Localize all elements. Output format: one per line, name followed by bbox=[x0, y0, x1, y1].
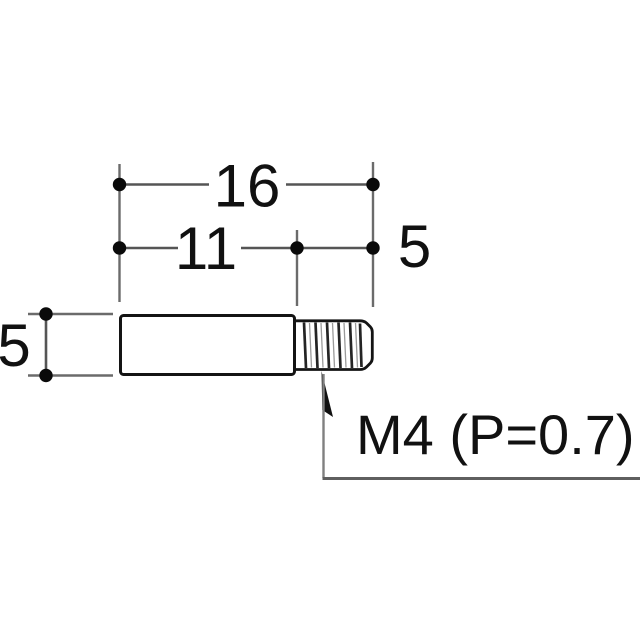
wire: leader horizontal underline bbox=[323, 477, 640, 480]
thread crest lines bbox=[304, 323, 362, 369]
wire: extension line left (x=119) bbox=[118, 164, 120, 302]
leader arrowhead (points to thread) bbox=[322, 371, 334, 417]
dimension line 11 bbox=[113, 241, 380, 254]
body cylinder bbox=[121, 316, 295, 375]
dimension 5 (diameter, left) bbox=[28, 307, 113, 382]
wire: extension line middle (x=297) bbox=[296, 230, 298, 306]
wire: extension line right (x=373) bbox=[372, 162, 374, 307]
thread outline bbox=[296, 321, 372, 370]
wire: leader vertical bbox=[322, 374, 324, 478]
svg-text:11: 11 bbox=[175, 215, 237, 282]
svg-text:16: 16 bbox=[214, 153, 281, 220]
svg-text:5: 5 bbox=[0, 312, 31, 379]
svg-text:M4 (P=0.7): M4 (P=0.7) bbox=[356, 403, 635, 466]
svg-text:5: 5 bbox=[398, 213, 431, 280]
dimension line 16 bbox=[113, 178, 380, 191]
thread root lines (faint) bbox=[310, 323, 358, 368]
